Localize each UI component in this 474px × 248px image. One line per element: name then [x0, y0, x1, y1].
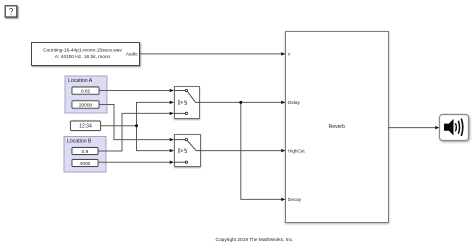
svg-text:4000: 4000 [80, 161, 91, 167]
constant 20000 [72, 101, 99, 109]
svg-text:Decay: Decay [288, 197, 302, 202]
SW2 threshold tick [178, 148, 180, 153]
SW2 pivot circle [185, 138, 187, 140]
SW2 input line port1 [174, 139, 185, 141]
svg-text:Location B: Location B [67, 139, 92, 145]
wire Audio to Reverb port x [140, 52, 286, 56]
SW1 input line port1 [174, 90, 185, 92]
SW1 input line port3 [174, 112, 185, 114]
svg-text:Counting-16-44p1-mono-15secs.w: Counting-16-44p1-mono-15secs.wav [43, 47, 122, 53]
SW1 threshold label > 5 [181, 101, 183, 103]
SW1 pivot circle [185, 89, 187, 91]
SW2 port3 contact circle [185, 161, 187, 163]
svg-text:HighCut: HighCut [288, 148, 305, 153]
wire 0.9 to switch SW1 port3 [98, 112, 174, 151]
area Location B [64, 137, 106, 173]
constant 0.02 [72, 87, 99, 94]
SW2 output stub [196, 150, 201, 152]
svg-text:Location A: Location A [68, 78, 93, 84]
SW1 output stub [196, 101, 200, 103]
svg-text:0.9: 0.9 [82, 149, 89, 155]
speaker icon [444, 119, 454, 136]
wire SW1 output to Reverb Delay (branches to Decay) [200, 101, 286, 201]
wire 20000 to switch SW2 port1 [99, 105, 174, 142]
junction dot [135, 124, 138, 127]
switch SW2 [174, 135, 201, 167]
block Audio Device Writer (speaker) [440, 115, 469, 141]
SW2 input line port3 [174, 161, 185, 163]
wire 4000 to switch SW2 port3 [98, 160, 174, 164]
SW1 threshold tick [178, 100, 180, 105]
svg-text:12:34: 12:34 [79, 124, 92, 130]
wire Reverb out to Audio Device Writer [388, 126, 440, 130]
help badge ? [5, 6, 17, 17]
block From Multimedia File (Counting wav) [32, 43, 140, 66]
junction dot on Delay wire [239, 101, 242, 104]
SW1 port3 contact circle [185, 112, 187, 114]
switch SW1 [174, 87, 200, 119]
svg-text:Audio: Audio [126, 52, 138, 57]
SW1 switch arm [187, 92, 195, 103]
wire SW2 output to Reverb HighCut [201, 149, 286, 153]
SW2 switch arm [187, 141, 196, 151]
clock block 12:34 [71, 121, 101, 131]
svg-text:Copyright 2019 The MathWorks,: Copyright 2019 The MathWorks, Inc. [216, 237, 294, 243]
wire 12:34 to SW1 port2 and SW2 port2 (branch) [101, 101, 175, 153]
svg-text:Reverb: Reverb [329, 124, 345, 130]
svg-text:A: 44100 Hz, 16 bit, mono: A: 44100 Hz, 16 bit, mono [55, 54, 111, 60]
svg-text:0.02: 0.02 [81, 88, 91, 94]
constant 4000 [72, 160, 98, 167]
block Reverb [286, 32, 389, 223]
wire 0.02 to switch SW1 port1 [99, 89, 174, 93]
SW2 threshold label > 5 [181, 150, 183, 152]
svg-text:20000: 20000 [79, 102, 93, 108]
area Location A [65, 76, 107, 113]
constant 0.9 [72, 148, 98, 155]
svg-text:Delay: Delay [288, 100, 300, 105]
